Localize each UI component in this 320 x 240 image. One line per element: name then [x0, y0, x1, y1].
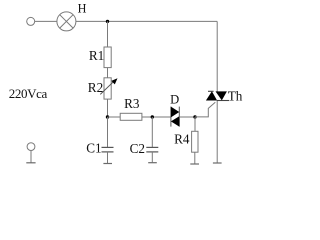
R2 wiper arrow — [100, 81, 114, 94]
svg-text:C2: C2 — [130, 141, 145, 156]
triac Th left triangle — [206, 91, 217, 100]
wire R2 down to gate node — [107, 99, 109, 117]
C1 end bar — [103, 163, 112, 165]
wire terminal X2 stub — [30, 151, 32, 163]
node junction left (gate line tap) — [106, 115, 109, 118]
R4 end bar — [190, 163, 199, 165]
resistor R1 — [104, 47, 111, 68]
resistor R4 — [192, 131, 198, 152]
svg-text:R3: R3 — [124, 96, 140, 111]
svg-text:C1: C1 — [86, 141, 101, 156]
diac D top triangle — [171, 107, 179, 118]
terminal X2 (bottom left input) — [27, 143, 35, 151]
svg-text:D: D — [170, 92, 179, 106]
potentiometer R2 — [104, 78, 111, 99]
svg-text:H: H — [78, 2, 87, 16]
wire node down to C2 — [151, 117, 153, 147]
svg-text:Th: Th — [228, 88, 243, 103]
diac D right bar — [178, 107, 180, 127]
wire junction down to R4 — [194, 117, 196, 131]
wire lamp to top-right corner — [76, 20, 217, 22]
diac D bottom triangle — [171, 116, 179, 126]
wire right rail down (lower segment) — [216, 100, 218, 162]
wire right rail down (upper segment) — [216, 21, 218, 91]
node junction R4/gate — [193, 115, 196, 118]
wire R1 to R2 — [107, 68, 109, 78]
C2 end bar — [148, 162, 157, 164]
lamp H — [57, 12, 76, 31]
wire R4 stub — [194, 152, 196, 164]
wire gate node to R3 — [108, 116, 121, 118]
triac Th bottom bar — [217, 100, 229, 102]
diac D left bar — [170, 107, 172, 127]
terminal X2 end bar — [26, 162, 35, 164]
wire C1 stub — [107, 152, 109, 163]
terminal X1 (top left input) — [27, 17, 35, 25]
svg-text:R4: R4 — [174, 132, 190, 147]
capacitor C2 — [146, 146, 158, 148]
wire top junction down to R1 — [107, 21, 109, 47]
wire node down to C1 — [107, 117, 109, 147]
svg-text:220Vca: 220Vca — [9, 86, 48, 101]
wire R3 to diac — [142, 116, 171, 118]
svg-text:R1: R1 — [89, 48, 104, 63]
wire C2 stub — [151, 152, 153, 162]
wire diac to gate junction — [179, 116, 195, 118]
resistor R3 — [120, 113, 142, 120]
triac Th top bar (gate-side cathode bar) — [208, 90, 214, 92]
triac gate wire — [195, 102, 215, 117]
wire terminal to lamp — [35, 20, 57, 22]
capacitor C1 — [102, 146, 114, 148]
triac Th right triangle — [216, 91, 227, 100]
node junction top (left rail tap) — [106, 20, 109, 23]
svg-text:R2: R2 — [88, 80, 103, 95]
right rail end bar — [213, 162, 222, 164]
node junction C2 tap — [151, 115, 154, 118]
